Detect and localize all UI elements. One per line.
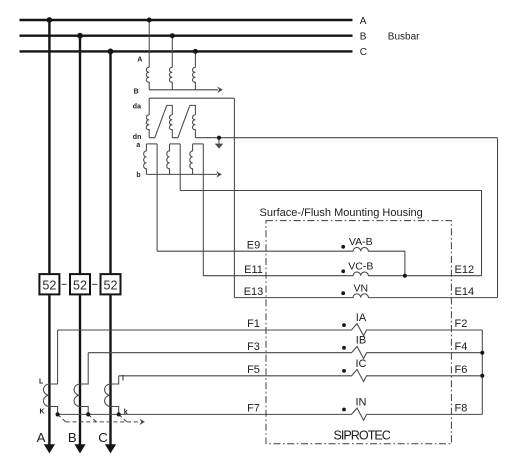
- svg-text:L: L: [39, 378, 44, 385]
- svg-text:E13: E13: [244, 286, 264, 298]
- svg-text:k: k: [124, 409, 128, 416]
- svg-text:Busbar: Busbar: [388, 32, 420, 43]
- svg-text:52: 52: [73, 279, 87, 293]
- svg-text:dn: dn: [133, 134, 142, 141]
- svg-text:C: C: [360, 47, 367, 58]
- svg-text:IB: IB: [356, 335, 366, 347]
- svg-text:da: da: [133, 104, 141, 111]
- svg-text:F4: F4: [455, 341, 468, 353]
- svg-text:E11: E11: [244, 264, 263, 276]
- svg-text:a: a: [136, 142, 140, 149]
- svg-text:F3: F3: [247, 341, 260, 353]
- svg-text:VN: VN: [354, 282, 369, 294]
- svg-text:VA-B: VA-B: [349, 236, 373, 248]
- svg-text:F7: F7: [247, 403, 260, 415]
- svg-text:K: K: [40, 408, 45, 415]
- svg-text:E14: E14: [455, 286, 475, 298]
- svg-text:VC-B: VC-B: [348, 261, 373, 273]
- svg-text:E9: E9: [247, 239, 260, 251]
- svg-text:B: B: [360, 32, 367, 43]
- svg-text:F2: F2: [455, 318, 468, 330]
- svg-text:C: C: [98, 430, 108, 445]
- svg-text:IA: IA: [356, 312, 367, 324]
- svg-text:F6: F6: [455, 364, 468, 376]
- svg-text:A: A: [37, 430, 46, 445]
- svg-text:F5: F5: [247, 364, 260, 376]
- svg-text:b: b: [136, 172, 140, 179]
- svg-text:F8: F8: [455, 403, 468, 415]
- svg-text:SIPROTEC: SIPROTEC: [334, 429, 391, 443]
- svg-text:IC: IC: [356, 358, 367, 370]
- svg-text:F1: F1: [247, 318, 260, 330]
- svg-text:Surface-/Flush Mounting Housin: Surface-/Flush Mounting Housing: [260, 207, 423, 219]
- svg-text:B: B: [68, 430, 77, 445]
- svg-text:IN: IN: [356, 396, 367, 408]
- svg-text:A: A: [360, 16, 367, 27]
- svg-text:B: B: [134, 89, 139, 96]
- svg-text:52: 52: [103, 279, 117, 293]
- svg-text:E12: E12: [455, 264, 475, 276]
- svg-text:52: 52: [42, 279, 56, 293]
- svg-text:A: A: [137, 57, 142, 64]
- svg-text:l: l: [122, 376, 124, 383]
